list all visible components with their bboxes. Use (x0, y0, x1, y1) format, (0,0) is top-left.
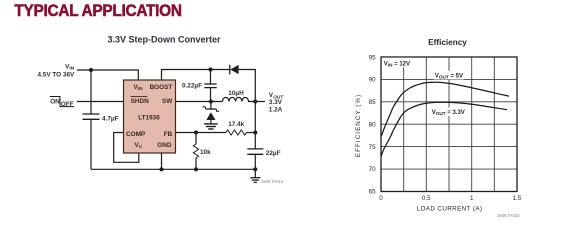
svg-text:TYPICAL APPLICATION: TYPICAL APPLICATION (14, 1, 181, 20)
svg-text:SHDN: SHDN (131, 98, 149, 105)
svg-text:VIN = 12V: VIN = 12V (384, 61, 410, 67)
svg-text:65: 65 (369, 189, 377, 196)
svg-text:OFF: OFF (61, 101, 74, 108)
svg-text:10k: 10k (200, 149, 211, 156)
svg-text:VOUT = 5V: VOUT = 5V (435, 73, 463, 79)
svg-text:85: 85 (369, 99, 377, 106)
svg-text:ON: ON (50, 99, 60, 106)
svg-text:VOUT = 3.3V: VOUT = 3.3V (432, 110, 465, 116)
svg-text:GND: GND (157, 142, 172, 149)
svg-text:4.5V TO 36V: 4.5V TO 36V (37, 71, 75, 78)
svg-text:22µF: 22µF (266, 150, 281, 157)
svg-text:3.3V: 3.3V (269, 99, 283, 106)
svg-text:FB: FB (164, 131, 173, 138)
svg-text:EFFICIENCY (%): EFFICIENCY (%) (355, 94, 362, 157)
svg-text:75: 75 (369, 144, 377, 151)
svg-text:0.22µF: 0.22µF (182, 83, 202, 90)
svg-text:0: 0 (379, 195, 383, 202)
svg-text:VIN: VIN (65, 63, 75, 71)
svg-text:1.5: 1.5 (513, 195, 522, 202)
svg-text:1936 TA01b: 1936 TA01b (497, 213, 520, 218)
svg-text:Efficiency: Efficiency (428, 38, 467, 47)
svg-text:0.5: 0.5 (422, 195, 431, 202)
svg-text:LT1936: LT1936 (138, 115, 160, 122)
svg-text:1.2A: 1.2A (269, 107, 283, 114)
svg-text:80: 80 (369, 121, 377, 128)
svg-text:4.7µF: 4.7µF (102, 115, 119, 122)
svg-text:LOAD CURRENT (A): LOAD CURRENT (A) (417, 206, 483, 213)
svg-text:3.3V Step-Down Converter: 3.3V Step-Down Converter (107, 35, 221, 45)
svg-text:SW: SW (162, 98, 173, 105)
svg-text:COMP: COMP (126, 131, 146, 138)
svg-text:70: 70 (369, 166, 377, 173)
svg-text:1: 1 (470, 195, 474, 202)
svg-text:1936 TA01a: 1936 TA01a (261, 179, 284, 184)
svg-text:10µH: 10µH (228, 90, 244, 97)
svg-text:90: 90 (369, 77, 377, 84)
svg-text:95: 95 (369, 55, 377, 62)
svg-text:BOOST: BOOST (150, 84, 173, 91)
svg-text:17.4k: 17.4k (228, 121, 244, 128)
